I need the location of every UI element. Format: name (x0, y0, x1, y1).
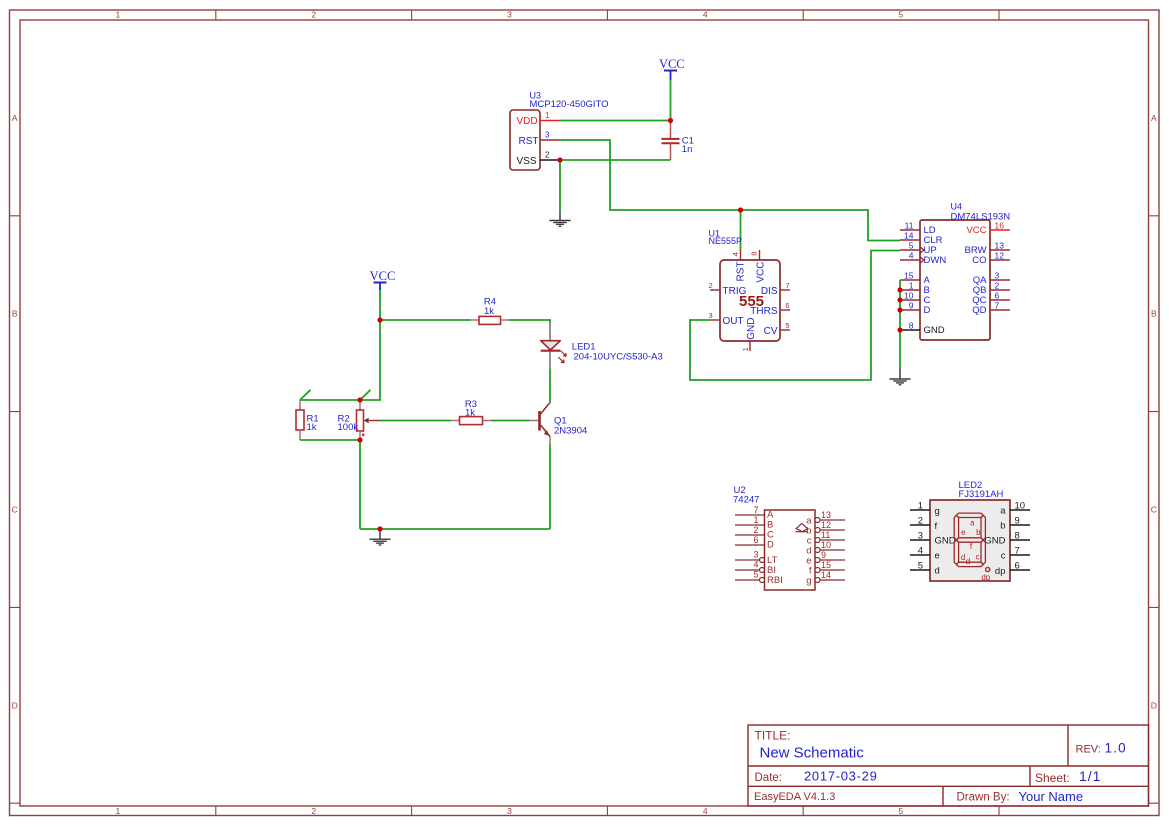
svg-text:15: 15 (821, 560, 831, 570)
U4 pin 4 DWN (900, 251, 946, 267)
U2 pin 14 g (806, 570, 845, 586)
ground under U4 (889, 369, 910, 385)
svg-text:14: 14 (904, 231, 914, 241)
wire VDD to C1 top (560, 120, 671, 122)
svg-text:4: 4 (731, 252, 740, 256)
U2 pin 6 D (735, 535, 774, 550)
svg-text:2: 2 (995, 281, 1000, 291)
junction RST/U1 (738, 207, 743, 212)
svg-text:DWN: DWN (924, 255, 947, 266)
svg-text:Your Name: Your Name (1019, 789, 1084, 804)
svg-text:C: C (12, 505, 18, 515)
svg-text:4: 4 (703, 10, 708, 20)
svg-text:204-10UYC/S530-A3: 204-10UYC/S530-A3 (574, 352, 663, 363)
wire R3 to Q1 base (491, 420, 530, 422)
svg-text:14: 14 (821, 570, 831, 580)
wire VCC down to R2 top (360, 320, 380, 400)
svg-text:3: 3 (753, 550, 758, 560)
U4 pin 5 UP (900, 241, 937, 257)
svg-text:5: 5 (785, 321, 789, 330)
U4 pin 9 D (900, 301, 931, 317)
U4 pin 11 LD (900, 221, 936, 237)
title block (748, 725, 1149, 806)
svg-text:1n: 1n (682, 144, 693, 155)
U2 pin 12 b (806, 520, 845, 536)
wire R1 bottom to R2 bottom (300, 439, 360, 441)
wire bottom rail (360, 528, 550, 530)
U2 pin 4 BI (735, 560, 776, 576)
svg-text:9: 9 (821, 550, 826, 560)
svg-text:a: a (1000, 506, 1006, 517)
U2 pin 5 RBI (735, 570, 783, 586)
U2 pin 15 f (809, 560, 845, 576)
LED2 segment letters (961, 518, 981, 566)
svg-text:VCC: VCC (966, 225, 986, 236)
svg-text:f: f (935, 521, 938, 532)
svg-text:1: 1 (918, 501, 923, 512)
svg-text:5: 5 (753, 570, 758, 580)
svg-text:12: 12 (821, 520, 831, 530)
svg-text:GND: GND (984, 536, 1005, 547)
svg-text:MCP120-450GITO: MCP120-450GITO (530, 99, 609, 110)
wire RST net to U4 CLR (741, 210, 901, 241)
wire R2 top to R1 top (300, 399, 360, 401)
svg-text:Sheet:: Sheet: (1035, 771, 1070, 785)
svg-text:1: 1 (545, 111, 550, 120)
resistor R4 1k (471, 297, 510, 325)
wire VCC junction to R4 (380, 319, 471, 321)
svg-text:d: d (935, 566, 940, 577)
U4 pin 2 QB (973, 281, 1010, 297)
wire R2 bottom down (359, 440, 361, 529)
display LED2 FJ3191AH (930, 480, 1010, 581)
U3 pin 1 VDD (540, 111, 560, 121)
svg-text:B: B (1151, 309, 1157, 319)
svg-text:TITLE:: TITLE: (755, 729, 791, 743)
U1 pin 1 GND (741, 318, 757, 352)
svg-text:1: 1 (741, 347, 750, 351)
svg-text:6: 6 (753, 535, 758, 545)
capacitor C1 1n (662, 121, 694, 161)
U1 pin 8 VCC (750, 250, 767, 283)
svg-text:5: 5 (898, 10, 903, 20)
junction R2 bottom (357, 437, 362, 442)
svg-text:7: 7 (1015, 546, 1020, 557)
U4 pin 3 QA (973, 271, 1010, 287)
LED2 pin 7 c (right) (1001, 546, 1030, 562)
svg-text:g: g (935, 506, 940, 517)
svg-text:e: e (961, 528, 966, 537)
svg-text:9: 9 (1015, 516, 1020, 527)
svg-text:1.0: 1.0 (1105, 741, 1127, 756)
U4 pin 1 B (900, 281, 930, 297)
junction U4 C (897, 297, 902, 302)
svg-text:VSS: VSS (517, 156, 537, 167)
U4 pin 14 CLR (900, 231, 943, 247)
wire U4 ABCD/GND rail (899, 280, 901, 369)
U1 pin 7 DIS (761, 281, 790, 297)
svg-text:3: 3 (995, 271, 1000, 281)
svg-text:2: 2 (709, 281, 713, 290)
svg-text:1: 1 (116, 806, 121, 816)
wire VCC to rail junction (379, 290, 381, 320)
svg-text:1k: 1k (307, 422, 317, 433)
svg-text:4: 4 (909, 251, 914, 261)
junction R2 top (357, 397, 362, 402)
LED2 seven segment digit (954, 513, 985, 567)
LED2 pin 4 e (left) (910, 546, 940, 562)
junction VSS (557, 157, 562, 162)
U1 pin 6 THRS (750, 301, 790, 317)
svg-text:2: 2 (545, 151, 550, 160)
wire stub diagonal at R2 (360, 390, 371, 400)
power flag VCC (left) (370, 269, 396, 290)
junction U4 D (897, 307, 902, 312)
LED2 pin 9 b (right) (1000, 516, 1030, 532)
svg-text:g: g (806, 575, 811, 586)
svg-text:NE555P: NE555P (709, 236, 743, 246)
svg-text:9: 9 (909, 301, 914, 311)
svg-text:REV:: REV: (1076, 744, 1101, 756)
svg-text:1: 1 (909, 281, 914, 291)
svg-text:VCC: VCC (659, 57, 685, 71)
svg-text:3: 3 (507, 10, 512, 20)
svg-text:4: 4 (918, 546, 923, 557)
wire Q1 emitter down (549, 445, 551, 530)
svg-text:D: D (924, 305, 931, 316)
svg-text:10: 10 (1015, 501, 1026, 512)
junction U4 GND (897, 327, 902, 332)
LED2 dp dot (981, 567, 990, 582)
svg-text:Drawn By:: Drawn By: (957, 792, 1010, 804)
U4 pin 6 QC (972, 291, 1010, 307)
svg-text:RST: RST (519, 136, 539, 147)
U2 pin 9 e (806, 550, 845, 566)
svg-text:7: 7 (995, 301, 1000, 311)
svg-text:6: 6 (785, 301, 789, 310)
U2 pin 2 C (735, 525, 774, 540)
svg-text:11: 11 (905, 221, 914, 231)
svg-text:A: A (12, 113, 18, 123)
svg-text:6: 6 (995, 291, 1000, 301)
U3 pin 3 RST (540, 131, 560, 141)
wire junction to U1 pin4 (740, 210, 742, 250)
svg-text:13: 13 (995, 241, 1005, 251)
U4 pin 13 BRW (965, 241, 1011, 257)
svg-text:VDD: VDD (517, 116, 538, 127)
svg-text:2: 2 (753, 525, 758, 535)
svg-text:2017-03-29: 2017-03-29 (804, 769, 878, 784)
svg-text:GND: GND (935, 536, 956, 547)
svg-text:100k: 100k (338, 422, 359, 433)
wire VCC to junction (670, 80, 672, 121)
svg-text:11: 11 (821, 530, 830, 540)
svg-text:7: 7 (785, 281, 789, 290)
wire R4 to LED1 (509, 320, 550, 323)
svg-text:D: D (1151, 700, 1157, 710)
svg-text:5: 5 (898, 806, 903, 816)
svg-text:d: d (966, 557, 970, 566)
U1 pin 5 CV (764, 321, 790, 337)
svg-text:7: 7 (753, 505, 758, 515)
U3 pin 2 VSS (540, 151, 560, 161)
svg-text:OUT: OUT (723, 316, 744, 327)
svg-text:A: A (1151, 113, 1157, 123)
svg-text:GND: GND (746, 318, 757, 340)
svg-text:5: 5 (909, 241, 914, 251)
svg-text:5: 5 (918, 561, 923, 572)
wire U1 OUT to U4 UP (690, 251, 900, 381)
svg-text:CV: CV (764, 326, 778, 337)
svg-text:d: d (961, 553, 965, 562)
IC U2 74247 (733, 485, 815, 590)
U2 pin 11 c (807, 530, 845, 546)
U1 pin 4 RST (731, 250, 747, 282)
svg-text:c: c (976, 553, 980, 562)
U2 pin 3 LT (735, 550, 778, 566)
svg-text:3: 3 (507, 806, 512, 816)
svg-text:b: b (1000, 521, 1005, 532)
power flag VCC (top) (659, 57, 685, 80)
svg-text:RBI: RBI (767, 575, 783, 586)
svg-text:QD: QD (972, 305, 986, 316)
U2 pin 13 a (806, 510, 845, 526)
svg-text:VCC: VCC (370, 269, 396, 283)
resistor R1 1k (296, 400, 319, 440)
svg-text:GND: GND (924, 325, 945, 336)
LED2 pin 10 a (right) (1000, 501, 1030, 517)
U2 pin 7 A (735, 505, 774, 520)
svg-text:1: 1 (753, 515, 758, 525)
U4 pin 16 VCC (966, 221, 1010, 237)
svg-text:CO: CO (972, 255, 986, 266)
svg-text:dp: dp (995, 566, 1006, 577)
svg-text:2: 2 (311, 10, 316, 20)
svg-text:FJ3191AH: FJ3191AH (959, 489, 1004, 500)
junction VCC rail (377, 317, 382, 322)
svg-text:3: 3 (918, 531, 923, 542)
resistor R3 1k (451, 399, 491, 425)
svg-text:1k: 1k (484, 306, 494, 317)
svg-text:B: B (12, 309, 18, 319)
svg-text:6: 6 (1015, 561, 1020, 572)
IC U3 MCP120-450GITO (510, 91, 609, 171)
svg-text:dp: dp (981, 573, 990, 582)
LED2 pin 5 d (left) (910, 561, 940, 577)
svg-text:8: 8 (750, 252, 759, 256)
svg-text:U4: U4 (951, 202, 963, 212)
wire R2 wiper to R3 (380, 420, 451, 422)
svg-text:2N3904: 2N3904 (554, 425, 587, 436)
U4 pin 7 QD (972, 301, 1010, 317)
junction U4 B (897, 287, 902, 292)
LED2 pin 1 g (left) (910, 501, 940, 518)
wire VSS to ground (559, 160, 561, 211)
IC U4 DM74LS193N (920, 202, 1010, 341)
title block texts (754, 729, 1127, 805)
U2 pin 1 B (735, 515, 773, 530)
svg-text:15: 15 (904, 271, 914, 281)
svg-text:3: 3 (709, 311, 713, 320)
svg-text:D: D (12, 700, 18, 710)
U2 pin 10 d (806, 540, 845, 556)
svg-text:4: 4 (753, 560, 758, 570)
svg-text:c: c (1001, 551, 1006, 562)
svg-text:4: 4 (703, 806, 708, 816)
svg-text:1: 1 (116, 10, 121, 20)
LED2 pin 8 GND (right) (984, 531, 1030, 547)
svg-text:8: 8 (909, 321, 914, 331)
svg-text:8: 8 (1015, 531, 1020, 542)
svg-text:12: 12 (995, 251, 1005, 261)
LED2 pin 2 f (left) (910, 516, 938, 533)
U4 pin 8 GND (900, 321, 945, 337)
svg-text:New Schematic: New Schematic (760, 745, 865, 762)
wire stub diagonal at R1 (300, 390, 311, 400)
svg-text:2: 2 (311, 806, 316, 816)
svg-text:TRIG: TRIG (723, 286, 747, 297)
wire RST net (560, 140, 741, 210)
svg-text:RST: RST (736, 262, 747, 282)
svg-text:D: D (767, 540, 774, 551)
svg-text:VCC: VCC (756, 262, 767, 283)
U4 pin 15 A (900, 271, 931, 287)
svg-text:74247: 74247 (733, 495, 759, 506)
wire LED1 to Q1 collector (549, 370, 551, 403)
svg-text:16: 16 (995, 221, 1005, 231)
wire VSS to C1 bottom (560, 159, 671, 161)
svg-text:DIS: DIS (761, 286, 778, 297)
svg-text:e: e (935, 551, 940, 562)
svg-text:THRS: THRS (750, 306, 778, 317)
svg-text:13: 13 (821, 510, 831, 520)
ground under U3 (549, 211, 570, 227)
svg-text:a: a (970, 518, 975, 527)
LED2 pin 3 GND (left) (910, 531, 956, 547)
transistor Q1 2N3904 (530, 401, 588, 445)
junction ground rail (377, 526, 382, 531)
svg-text:10: 10 (821, 540, 831, 550)
U1 pin 3 OUT (709, 311, 744, 327)
LED2 pin 6 dp (right) (995, 561, 1030, 578)
diode LED1 204-10UYC/S530-A3 (541, 322, 663, 370)
IC U1 NE555P (709, 229, 781, 342)
U4 pin 10 C (900, 291, 931, 307)
U1 pin 2 TRIG (709, 281, 747, 297)
svg-text:3: 3 (545, 131, 550, 140)
svg-text:C: C (1151, 505, 1157, 515)
svg-text:1/1: 1/1 (1079, 768, 1101, 784)
svg-text:2: 2 (918, 516, 923, 527)
svg-text:10: 10 (904, 291, 914, 301)
svg-text:b: b (976, 528, 981, 537)
svg-text:Date:: Date: (755, 772, 783, 784)
U4 pin 12 CO (972, 251, 1010, 267)
ground under rail (369, 529, 390, 545)
potentiometer R2 100k (338, 400, 381, 440)
svg-text:EasyEDA V4.1.3: EasyEDA V4.1.3 (754, 791, 835, 803)
junction at VCC/C1/VDD (668, 118, 673, 123)
